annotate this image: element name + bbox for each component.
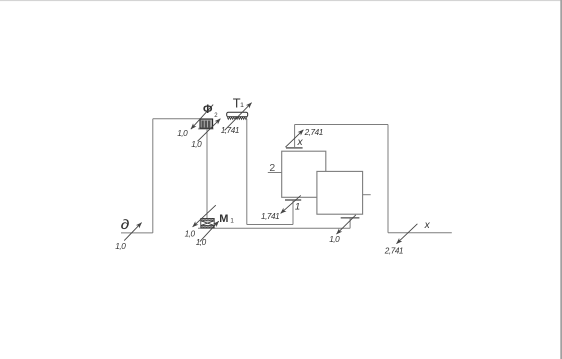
- svg-text:1,741: 1,741: [261, 212, 279, 221]
- wire: right vertical drop: [387, 125, 389, 233]
- damper M1 body: [201, 218, 214, 228]
- wire: left vertical riser: [152, 119, 154, 233]
- box 2 (lower block, overlaps box 1): [317, 171, 363, 214]
- svg-text:x: x: [424, 220, 431, 231]
- svg-text:2,741: 2,741: [304, 128, 323, 137]
- node tick 1 below box 1: [285, 199, 301, 201]
- node tick below box 2: [341, 217, 360, 219]
- spring T1 support hatching: [227, 117, 247, 119]
- wire: riser up to tick under box 1: [292, 200, 294, 225]
- arrow: input signal d: [124, 223, 141, 241]
- wire: input horizontal segment: [121, 232, 153, 234]
- node tick above box 1: [286, 147, 303, 149]
- arrow: M1 lower (to upper-right): [200, 221, 219, 241]
- wire: horizontal from T1 leg to node 1 riser: [247, 224, 293, 226]
- svg-text:1: 1: [295, 202, 300, 213]
- filter F2 body: [198, 119, 213, 130]
- top page border line: [0, 0, 561, 1]
- wire: vertical from T1 down: [246, 119, 248, 225]
- arrow: node 1 below box 1: [281, 195, 301, 213]
- wire: vertical from F2 down to M1: [206, 128, 208, 218]
- svg-text:∂: ∂: [121, 218, 130, 233]
- wire: vertical from tick above box 1 up to top bus: [294, 125, 296, 148]
- wire: top horizontal bus: [295, 124, 388, 126]
- svg-text:T1: T1: [233, 95, 244, 110]
- wire: bottom-right output horizontal: [388, 232, 452, 234]
- svg-text:1,0: 1,0: [185, 229, 196, 238]
- wire: top-left horizontal into filter F2: [153, 118, 200, 120]
- svg-text:1,0: 1,0: [177, 129, 188, 138]
- wire: long bottom horizontal from M1 to below box 2: [198, 227, 350, 229]
- svg-text:1,0: 1,0: [329, 235, 340, 244]
- svg-text:x: x: [297, 137, 304, 148]
- wire: right stub of box 2: [363, 194, 371, 196]
- svg-text:1,0: 1,0: [191, 140, 202, 149]
- arrow: T1 (to upper-right): [225, 103, 252, 131]
- spring T1 bar: [227, 112, 248, 117]
- box 1 (upper block): [282, 151, 326, 197]
- svg-text:M1: M1: [219, 213, 234, 225]
- svg-text:1,741: 1,741: [221, 126, 239, 135]
- svg-text:1,0: 1,0: [115, 242, 126, 251]
- right page border line: [560, 0, 562, 359]
- arrow: F2 lower (to upper-right): [198, 119, 221, 142]
- arrow: node x above box 1: [285, 130, 303, 147]
- svg-text:2: 2: [269, 162, 275, 174]
- wire: short vertical up to tick under box 2: [349, 218, 351, 229]
- wire: input stub 2 into box 1: [268, 172, 282, 174]
- svg-text:1,0: 1,0: [196, 238, 207, 247]
- svg-text:2,741: 2,741: [384, 247, 403, 256]
- arrow: node below box 2: [337, 215, 356, 234]
- arrow: F2 upper (to lower-left): [191, 105, 213, 130]
- arrow: output x: [397, 224, 418, 244]
- arrow: M1 upper (to lower-left): [193, 205, 216, 227]
- svg-text:Φ2: Φ2: [203, 104, 218, 119]
